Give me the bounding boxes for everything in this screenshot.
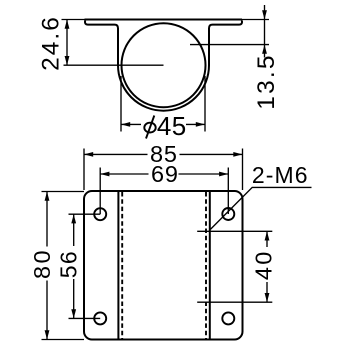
24.6 top extension line bbox=[62, 19, 85, 21]
40 extension lines bbox=[197, 230, 272, 232]
phi45 extension lines bbox=[120, 76, 122, 132]
label phi45 bbox=[144, 116, 155, 139]
plate top surface line bbox=[85, 19, 243, 21]
svg-text:40: 40 bbox=[250, 250, 276, 281]
2-M6 leader bbox=[210, 187, 311, 229]
left bend line (solid) bbox=[117, 192, 119, 339]
69 dimension line bbox=[100, 173, 148, 175]
hole bottom-right bbox=[222, 312, 234, 324]
phi45 dimension line bbox=[121, 123, 141, 125]
svg-text:45: 45 bbox=[157, 111, 187, 141]
svg-text:69: 69 bbox=[151, 161, 179, 187]
56 extension lines bbox=[69, 213, 101, 215]
80 extension lines bbox=[42, 191, 85, 193]
40 dimension line bbox=[266, 231, 268, 247]
13.5 dimension line (outside arrows) bbox=[264, 5, 266, 58]
80 dimension line bbox=[46, 192, 48, 247]
hole bottom-left bbox=[94, 312, 106, 324]
13.5 reference line bbox=[190, 44, 269, 46]
right hidden line (dashed) bbox=[205, 192, 207, 339]
hole top-left bbox=[94, 208, 106, 220]
85 extension lines bbox=[83, 149, 85, 191]
85 dimension line bbox=[84, 153, 148, 155]
svg-text:56: 56 bbox=[55, 250, 81, 278]
svg-text:24.6: 24.6 bbox=[38, 15, 65, 71]
13.5 top extension line bbox=[242, 19, 269, 21]
69 extension lines bbox=[99, 168, 101, 215]
56 dimension line bbox=[73, 214, 75, 246]
svg-text:80: 80 bbox=[29, 248, 55, 279]
plate underside + saddle outer wrap bbox=[85, 21, 242, 111]
tube circle bbox=[122, 23, 206, 107]
plate outline bbox=[84, 191, 243, 340]
svg-text:2-M6: 2-M6 bbox=[252, 162, 309, 188]
centerline bbox=[64, 64, 164, 66]
left hidden line (dashed) bbox=[121, 192, 123, 339]
svg-text:13.5: 13.5 bbox=[253, 53, 280, 109]
hole top-right bbox=[222, 208, 234, 220]
24.6 dimension line bbox=[66, 20, 68, 66]
right bend line (solid) bbox=[209, 192, 211, 339]
